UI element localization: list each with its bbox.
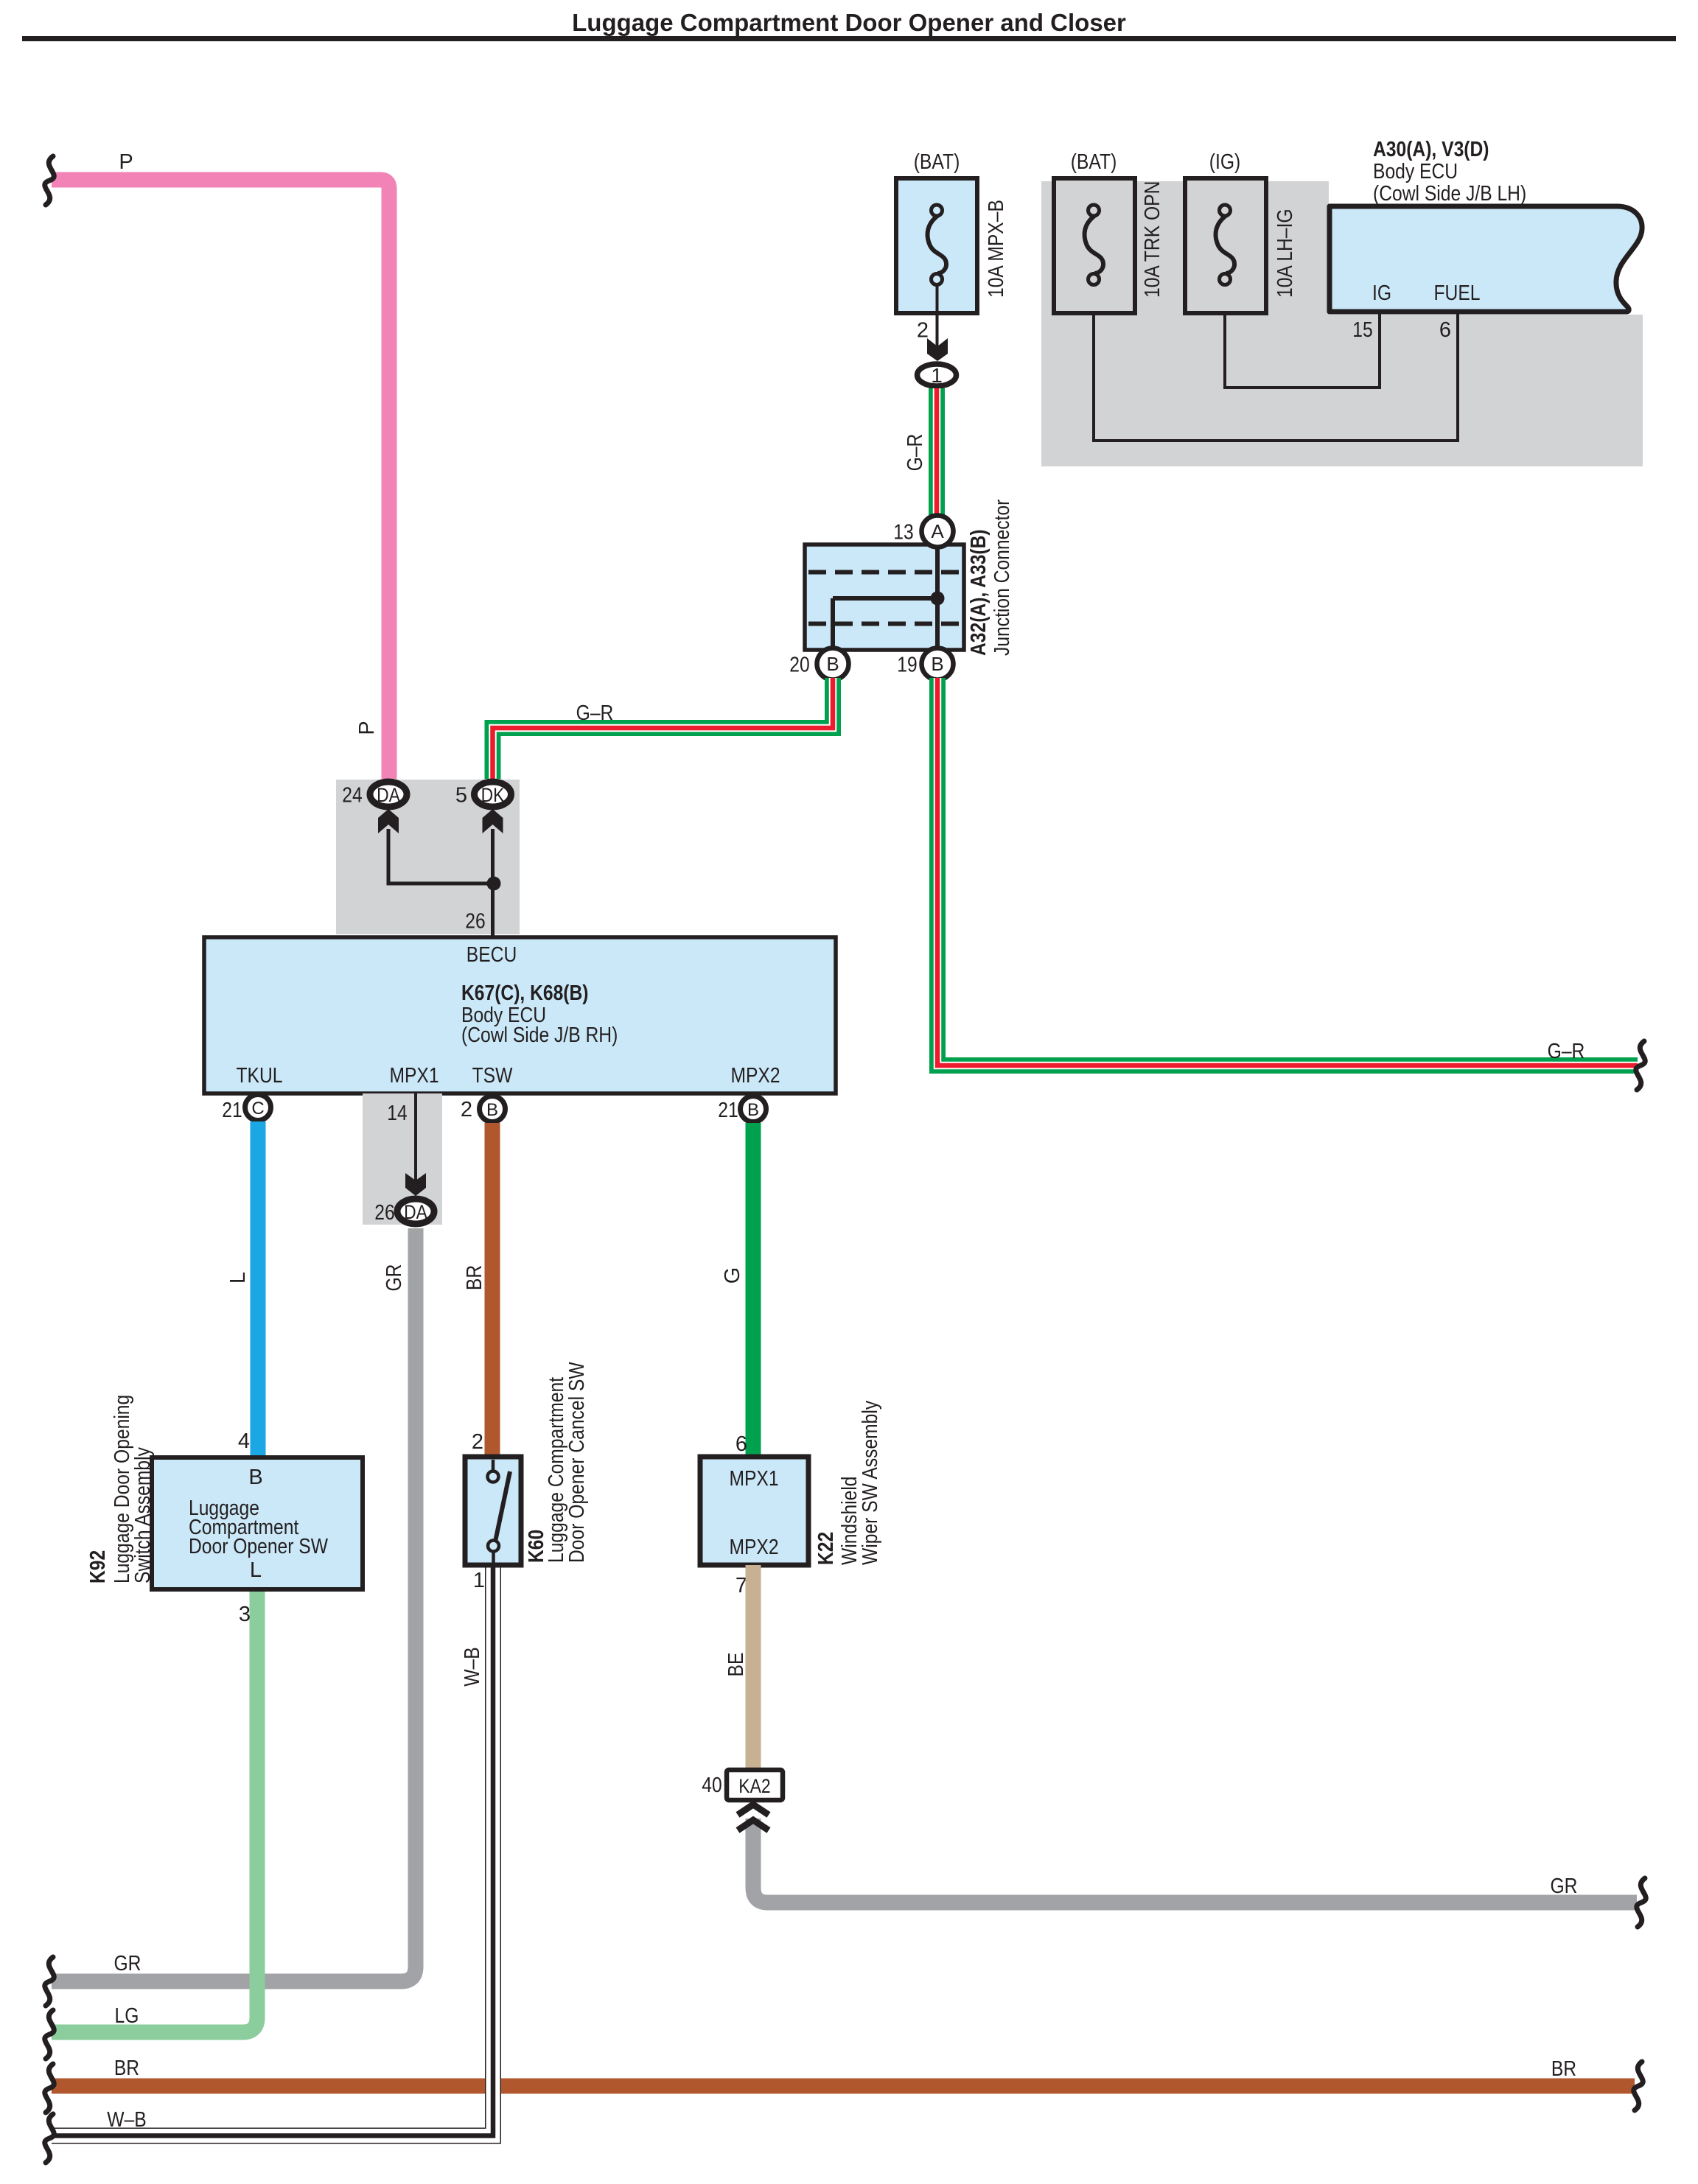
svg-text:Door Opener SW: Door Opener SW	[189, 1535, 329, 1558]
svg-text:(Cowl Side J/B LH): (Cowl Side J/B LH)	[1373, 182, 1526, 206]
svg-text:K67(C), K68(B): K67(C), K68(B)	[461, 981, 589, 1005]
svg-text:BR: BR	[1551, 2057, 1576, 2081]
svg-text:6: 6	[736, 1432, 747, 1456]
svg-text:21: 21	[718, 1099, 738, 1122]
svg-text:FUEL: FUEL	[1434, 281, 1481, 305]
svg-text:W–B: W–B	[107, 2108, 147, 2132]
svg-text:B: B	[248, 1466, 262, 1489]
svg-text:Luggage Compartment Door Opene: Luggage Compartment Door Opener and Clos…	[572, 9, 1126, 36]
svg-text:2: 2	[461, 1098, 472, 1121]
svg-text:26: 26	[374, 1201, 394, 1225]
svg-text:MPX1: MPX1	[729, 1467, 778, 1491]
svg-text:G–R: G–R	[1548, 1040, 1585, 1063]
svg-text:C: C	[251, 1099, 264, 1119]
svg-text:K22: K22	[814, 1532, 838, 1565]
svg-text:TSW: TSW	[472, 1064, 513, 1088]
svg-text:MPX2: MPX2	[730, 1064, 780, 1088]
svg-text:BE: BE	[724, 1653, 748, 1677]
svg-text:LG: LG	[115, 2004, 139, 2028]
svg-text:GR: GR	[114, 1952, 141, 1975]
svg-text:P: P	[119, 150, 133, 174]
svg-text:Door Opener Cancel SW: Door Opener Cancel SW	[565, 1362, 589, 1563]
svg-text:GR: GR	[382, 1264, 406, 1292]
svg-text:10A MPX–B: 10A MPX–B	[985, 200, 1008, 298]
svg-text:19: 19	[897, 654, 917, 677]
svg-text:IG: IG	[1372, 281, 1391, 305]
svg-text:10A TRK OPN: 10A TRK OPN	[1141, 181, 1164, 298]
svg-text:P: P	[355, 721, 379, 735]
svg-text:W–B: W–B	[461, 1647, 484, 1687]
svg-text:G–R: G–R	[904, 434, 927, 472]
svg-text:DA: DA	[404, 1201, 427, 1223]
svg-text:4: 4	[238, 1429, 250, 1453]
svg-text:G–R: G–R	[576, 701, 614, 725]
svg-text:B: B	[486, 1100, 498, 1120]
svg-text:1: 1	[931, 364, 943, 387]
svg-text:Wiper SW Assembly: Wiper SW Assembly	[859, 1400, 882, 1565]
svg-text:BR: BR	[114, 2057, 139, 2080]
svg-text:(Cowl Side J/B RH): (Cowl Side J/B RH)	[461, 1023, 618, 1047]
svg-text:10A LH–IG: 10A LH–IG	[1273, 209, 1297, 298]
svg-text:KA2: KA2	[738, 1775, 770, 1797]
svg-text:DA: DA	[377, 784, 400, 806]
svg-text:40: 40	[702, 1774, 722, 1797]
svg-text:2: 2	[917, 319, 929, 343]
svg-text:21: 21	[222, 1099, 242, 1122]
svg-text:20: 20	[789, 654, 809, 677]
svg-text:BECU: BECU	[467, 943, 517, 967]
svg-text:MPX2: MPX2	[729, 1536, 778, 1559]
svg-text:B: B	[931, 653, 943, 675]
svg-text:GR: GR	[1551, 1875, 1578, 1898]
svg-text:K92: K92	[86, 1550, 110, 1583]
svg-text:B: B	[826, 653, 839, 675]
svg-text:(IG): (IG)	[1209, 150, 1240, 174]
svg-text:A30(A), V3(D): A30(A), V3(D)	[1373, 138, 1489, 161]
svg-text:26: 26	[465, 910, 485, 934]
svg-text:24: 24	[342, 784, 362, 808]
svg-text:(BAT): (BAT)	[1071, 150, 1117, 174]
svg-text:13: 13	[893, 521, 913, 545]
svg-text:15: 15	[1352, 318, 1372, 342]
svg-text:Junction Connector: Junction Connector	[990, 499, 1014, 656]
svg-text:DK: DK	[481, 784, 505, 806]
svg-text:L: L	[250, 1558, 262, 1582]
svg-text:B: B	[747, 1100, 759, 1120]
svg-text:Body ECU: Body ECU	[1373, 160, 1458, 183]
svg-text:A: A	[931, 520, 944, 542]
svg-text:Switch Assembly: Switch Assembly	[131, 1447, 155, 1583]
svg-text:2: 2	[472, 1430, 483, 1454]
svg-text:6: 6	[1439, 318, 1451, 342]
svg-text:3: 3	[239, 1603, 251, 1626]
svg-text:1: 1	[473, 1569, 485, 1592]
svg-text:(BAT): (BAT)	[914, 150, 960, 174]
svg-text:5: 5	[455, 784, 467, 808]
svg-text:TKUL: TKUL	[237, 1064, 283, 1088]
svg-text:L: L	[226, 1272, 250, 1284]
svg-text:14: 14	[387, 1102, 407, 1125]
svg-text:A32(A), A33(B): A32(A), A33(B)	[967, 529, 990, 656]
svg-text:MPX1: MPX1	[389, 1064, 439, 1088]
svg-text:G: G	[721, 1267, 744, 1284]
svg-text:BR: BR	[463, 1265, 486, 1290]
